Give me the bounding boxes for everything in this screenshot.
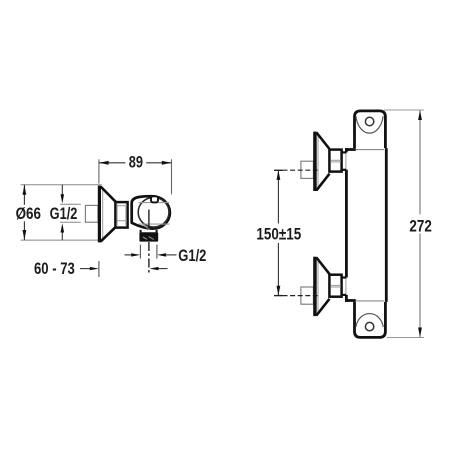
outlet dimension arrow right-pointing — [131, 253, 140, 256]
dimension G1/2 inlet arrow up — [61, 223, 65, 232]
top union dashed centerline — [283, 169, 318, 171]
bar bottom edge thin under tab — [356, 300, 384, 302]
bar left edge segment 2 — [345, 170, 348, 278]
bar top edge thin under tab — [356, 149, 384, 151]
bottom union wall block — [301, 287, 314, 304]
valve cap inner circle — [138, 197, 169, 227]
dimension 89 extension line right — [171, 159, 173, 194]
bottom mounting tab — [355, 301, 386, 338]
wall face extension line — [98, 261, 100, 277]
valve seam line — [143, 225, 150, 229]
top tab slot arc — [356, 116, 383, 133]
top union nut — [329, 150, 341, 172]
top union nut flat lines — [331, 159, 341, 161]
bar bottom edge thick — [345, 299, 356, 302]
dimension 272 arrow down — [418, 328, 422, 338]
svg-text:G1/2: G1/2 — [178, 247, 206, 265]
outlet thread highlights — [143, 237, 147, 239]
dimension 60-73 line — [80, 268, 91, 270]
bar left edge segment 3 — [345, 295, 348, 302]
outlet centerline — [148, 210, 150, 229]
top tab hole — [365, 117, 373, 125]
dimension 60-73 arrow at centerline — [149, 267, 158, 270]
dimension 272 extension line bottom — [387, 337, 425, 339]
bottom union escutcheon rim line — [317, 259, 319, 315]
dimension O66 extension line top — [21, 184, 102, 186]
top union escutcheon top slant — [316, 132, 329, 149]
escutcheon wall flange face — [98, 186, 101, 243]
svg-text:Ø66: Ø66 — [16, 205, 41, 224]
bar left edge thin at bottom neck — [345, 278, 347, 295]
dimension 150+-15 tick bottom — [274, 295, 283, 297]
bar left edge thin at top neck — [345, 152, 347, 169]
top union escutcheon bottom slant — [316, 174, 329, 191]
wall nipple block — [85, 205, 98, 222]
dimension G1/2 inlet extension line bottom — [60, 221, 81, 223]
bottom union dashed centerline — [283, 295, 318, 297]
dimension 150+-15 arrow up — [277, 170, 281, 180]
top union escutcheon face — [313, 132, 317, 191]
svg-text:272: 272 — [409, 217, 431, 236]
dimension G1/2 inlet line lower — [61, 232, 63, 241]
dimension G1/2 inlet extension line top — [60, 203, 81, 205]
dimension 272 line upper — [419, 110, 421, 214]
outlet neck left — [140, 230, 142, 233]
top union neck bottom — [342, 169, 346, 171]
bottom union escutcheon bottom slant — [316, 299, 329, 316]
bottom union escutcheon top slant — [316, 258, 329, 275]
dimension 272 line lower — [419, 233, 421, 337]
bar left edge segment 1 — [345, 148, 348, 152]
valve body outline — [132, 196, 170, 228]
dimension 89 arrow left — [99, 161, 109, 165]
outlet dimension extension line left — [139, 245, 141, 259]
valve top chord line — [138, 202, 169, 204]
bottom union nut flat lines — [331, 284, 341, 286]
valve bottom chord line — [138, 223, 169, 225]
outlet dimension arrow left-pointing — [157, 253, 166, 256]
dimension O66 arrow up — [23, 185, 27, 195]
hex nut facet line left — [116, 205, 118, 226]
dimension 272 arrow up — [418, 110, 422, 120]
dimension 89 line — [99, 162, 126, 164]
top union neck top — [342, 151, 346, 153]
dimension 60-73 overshoot line — [159, 268, 168, 270]
escutcheon bottom slant — [101, 227, 116, 242]
dimension O66 line — [23, 185, 25, 205]
valve top tab — [151, 196, 158, 202]
hex nut facet line right — [125, 205, 127, 226]
escutcheon inner rim line — [102, 188, 104, 241]
top union wall block — [301, 161, 314, 178]
dimension G1/2 inlet line upper — [61, 185, 63, 196]
svg-text:150±15: 150±15 — [256, 225, 301, 244]
bottom union neck top — [342, 276, 346, 278]
escutcheon top slant — [101, 187, 116, 202]
bar top edge thick — [345, 148, 356, 151]
bottom union nut — [329, 275, 341, 297]
outlet dimension line right — [166, 254, 176, 256]
bar right edge — [385, 148, 388, 302]
dimension 150+-15 tick top — [274, 169, 283, 171]
dimension G1/2 inlet arrow down — [61, 194, 65, 203]
hex nut flat line upper — [117, 205, 128, 207]
outlet threaded block — [139, 232, 158, 241]
bottom union escutcheon face — [313, 257, 317, 316]
top mounting tab — [355, 111, 386, 150]
bottom tab hole — [365, 322, 373, 330]
dimension 60-73 arrow at wall — [90, 267, 99, 270]
dimension O66 extension line bottom — [21, 239, 101, 241]
dimension 272 extension line top — [384, 109, 424, 111]
bar body fill — [345, 148, 388, 302]
svg-text:G1/2: G1/2 — [50, 206, 78, 224]
outlet dimension extension line right — [156, 245, 158, 259]
dimension 89 arrow right — [162, 161, 172, 165]
outlet dimension line left — [125, 254, 133, 256]
dimension O66 arrow down — [23, 230, 27, 240]
outlet neck right — [156, 230, 158, 233]
hex nut flat line lower — [117, 220, 128, 222]
dimension 150+-15 line lower — [277, 243, 279, 295]
svg-text:89: 89 — [129, 154, 143, 172]
top union escutcheon rim line — [317, 134, 319, 190]
bottom union neck bottom — [342, 294, 346, 296]
dimension 150+-15 arrow down — [277, 286, 281, 296]
dimension 150+-15 line upper — [277, 170, 279, 223]
bottom tab slot arc — [356, 314, 383, 328]
dimension 89 extension line left — [98, 159, 100, 183]
svg-text:60 - 73: 60 - 73 — [34, 261, 75, 279]
hex nut — [115, 202, 127, 228]
